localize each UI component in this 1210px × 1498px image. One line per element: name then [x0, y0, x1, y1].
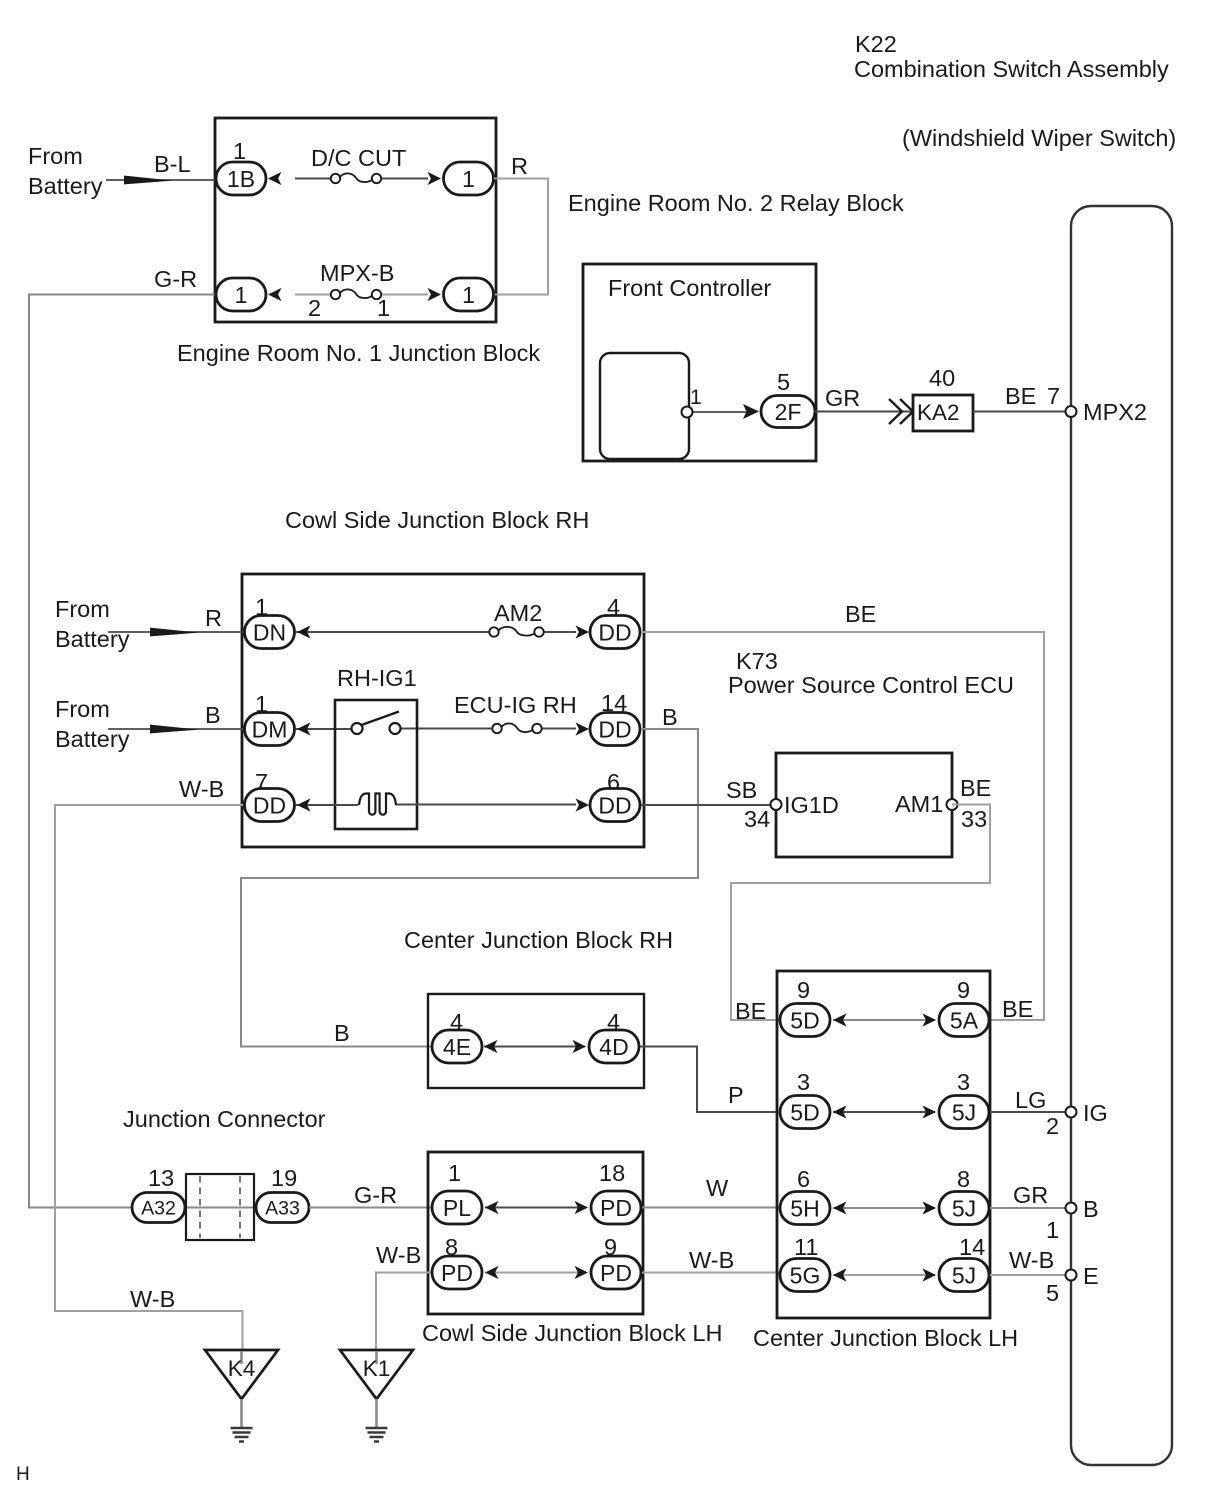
- svg-text:6: 6: [797, 1166, 810, 1192]
- arrowhead into terminal 1 (row2 right): [428, 288, 442, 301]
- wire W-B to ground K4: [55, 805, 245, 1352]
- battery arrow B-L: [124, 176, 173, 185]
- svg-text:A32: A32: [141, 1198, 176, 1220]
- label Battery (top): [28, 173, 103, 199]
- pin 8 of PD row2: [445, 1234, 458, 1260]
- wire R loop to MPX-B: [494, 179, 548, 295]
- terminal 1 (engine room row2 left): [216, 278, 266, 311]
- wire DN to AM2 fuse: [296, 631, 490, 633]
- arrowhead into PD row2 left: [485, 1266, 499, 1279]
- front controller internal unit: [600, 353, 689, 459]
- label Center Junction Block LH: [753, 1325, 1018, 1351]
- svg-text:BE: BE: [1002, 996, 1033, 1022]
- svg-text:33: 33: [961, 806, 987, 832]
- terminal PL: [432, 1191, 482, 1224]
- svg-text:1: 1: [462, 282, 475, 308]
- svg-text:BE: BE: [1005, 383, 1036, 409]
- wire G-R A33 to PL: [309, 1207, 432, 1209]
- terminal 4E: [432, 1030, 482, 1063]
- svg-text:BE: BE: [845, 601, 876, 627]
- battery arrow R: [150, 628, 199, 637]
- pin 1 of PL: [448, 1160, 461, 1186]
- arrowhead into PD row1: [575, 1201, 589, 1214]
- svg-text:4E: 4E: [443, 1034, 471, 1060]
- svg-text:R: R: [205, 605, 222, 631]
- pin 33 of AM1: [961, 806, 987, 832]
- wire label B (right of cowl RH): [662, 704, 678, 730]
- arrowhead into 5D row2: [833, 1105, 847, 1118]
- svg-text:19: 19: [271, 1165, 297, 1191]
- label AM2: [494, 600, 542, 626]
- label (Windshield Wiper Switch): [902, 125, 1176, 151]
- svg-text:E: E: [1083, 1263, 1099, 1289]
- arrowhead into DN: [297, 625, 311, 638]
- fuse D/C CUT: [331, 173, 381, 183]
- front controller box: [583, 264, 816, 461]
- svg-text:Power Source Control ECU: Power Source Control ECU: [728, 672, 1014, 698]
- wire label W-B (mid): [689, 1247, 734, 1273]
- pin 1 of MPX-B: [377, 295, 390, 321]
- svg-text:AM2: AM2: [494, 600, 542, 626]
- wire W-B 5J to E: [990, 1274, 1071, 1276]
- pin 6 of 5H: [797, 1166, 810, 1192]
- svg-text:5: 5: [777, 369, 790, 395]
- cowl side junction block LH box: [428, 1152, 643, 1314]
- svg-text:W-B: W-B: [376, 1242, 421, 1268]
- pin 1 label front controller: [690, 386, 702, 409]
- svg-text:9: 9: [797, 977, 810, 1003]
- svg-text:5J: 5J: [952, 1099, 976, 1125]
- pin AM1 of ECU: [947, 799, 958, 810]
- svg-text:B: B: [334, 1020, 350, 1046]
- label From (battery row R): [55, 596, 110, 622]
- pin 1 of 1B: [233, 138, 246, 164]
- label Center Junction Block RH: [404, 927, 673, 953]
- arrowhead into DD row3 left: [297, 798, 311, 811]
- relay RH-IG1 switch contacts: [352, 712, 401, 735]
- wire GR 5J to B: [990, 1207, 1071, 1209]
- svg-text:P: P: [728, 1082, 744, 1108]
- label Battery (row B): [55, 726, 130, 752]
- pin 2 of MPX-B: [308, 295, 321, 321]
- svg-text:G-R: G-R: [354, 1182, 397, 1208]
- svg-text:MPX2: MPX2: [1083, 399, 1147, 425]
- arrowhead into 4D: [573, 1040, 587, 1053]
- terminal DD row2: [590, 713, 640, 746]
- terminal 5H: [780, 1192, 830, 1225]
- svg-text:PL: PL: [443, 1195, 471, 1221]
- label K73: [736, 648, 778, 674]
- svg-text:1: 1: [1046, 1217, 1059, 1243]
- wire label BE (right of 5A): [1002, 996, 1033, 1022]
- svg-text:G-R: G-R: [154, 266, 197, 292]
- svg-text:Battery: Battery: [28, 173, 103, 199]
- svg-text:2: 2: [308, 295, 321, 321]
- arrowhead into 5D row1: [833, 1013, 847, 1026]
- node IG1D: [784, 792, 839, 818]
- wire label P: [728, 1082, 744, 1108]
- svg-text:14: 14: [959, 1234, 985, 1260]
- wire 4E to 4D link: [484, 1046, 585, 1048]
- wire label B-L: [154, 151, 191, 177]
- svg-text:1: 1: [690, 386, 702, 409]
- arrowhead into PD row2 right: [575, 1266, 589, 1279]
- cowl side junction block RH box: [242, 574, 644, 847]
- pin 3 of 5D row2: [797, 1069, 810, 1095]
- svg-text:Center Junction Block RH: Center Junction Block RH: [404, 927, 673, 953]
- wire label B (to 4E): [334, 1020, 350, 1046]
- wire label GR: [825, 385, 860, 411]
- label Engine Room No. 1 Junction Block: [177, 340, 540, 366]
- wire battery feed R: [108, 631, 243, 633]
- center junction block LH box: [777, 971, 990, 1318]
- pin 13 of A32: [148, 1165, 174, 1191]
- svg-text:PD: PD: [600, 1260, 632, 1286]
- wire label GR (right): [1013, 1182, 1048, 1208]
- svg-text:34: 34: [744, 806, 770, 832]
- svg-text:8: 8: [957, 1166, 970, 1192]
- arrowhead into terminal 1 (G-R row): [268, 288, 282, 301]
- terminal DD row3 left: [245, 789, 295, 822]
- wire G-R long run to junction connector: [29, 295, 216, 1208]
- wire PD to PD link row2: [485, 1272, 585, 1274]
- wire label W-B (right): [1009, 1247, 1054, 1273]
- node B: [1083, 1196, 1099, 1222]
- label From (battery row B): [55, 696, 110, 722]
- svg-text:From: From: [55, 596, 110, 622]
- svg-text:DD: DD: [598, 792, 631, 818]
- wire W-B PD to ground K1: [376, 1273, 432, 1353]
- wire 5D to 5A link: [833, 1019, 935, 1021]
- svg-text:5D: 5D: [790, 1099, 819, 1125]
- svg-text:5A: 5A: [950, 1007, 979, 1033]
- svg-text:IG: IG: [1083, 1100, 1108, 1126]
- terminal PD row2 left: [432, 1256, 482, 1289]
- arrowhead into 5A: [923, 1013, 937, 1026]
- relay RH-IG1 coil: [359, 794, 396, 815]
- engine room no.1 junction block box: [215, 118, 496, 322]
- terminal 5A: [939, 1004, 989, 1037]
- wire label BE (left of 5D): [735, 998, 766, 1024]
- label Battery (row R): [55, 626, 130, 652]
- svg-text:5: 5: [1046, 1280, 1059, 1306]
- wire P 4D to 5D: [640, 1047, 778, 1113]
- label Front Controller: [608, 275, 771, 301]
- pin IG of K22: [1066, 1107, 1077, 1118]
- label Junction Connector: [123, 1106, 326, 1132]
- wire D/C CUT fuse to terminal 1: [381, 178, 428, 180]
- svg-text:A33: A33: [265, 1198, 300, 1220]
- svg-text:SB: SB: [726, 777, 757, 803]
- pin B of K22: [1066, 1203, 1077, 1214]
- pin 1 B: [1046, 1217, 1059, 1243]
- svg-text:IG1D: IG1D: [784, 792, 839, 818]
- svg-text:B: B: [662, 704, 678, 730]
- wire label SB: [726, 777, 757, 803]
- terminal PD row2 right: [591, 1256, 641, 1289]
- svg-text:DN: DN: [253, 619, 286, 645]
- pin 5 E: [1046, 1280, 1059, 1306]
- svg-text:9: 9: [957, 977, 970, 1003]
- pin 7 MPX2: [1047, 383, 1060, 409]
- wire terminal to MPX-B fuse: [295, 294, 331, 296]
- pin 7 of DD row3: [255, 769, 268, 795]
- svg-text:W-B: W-B: [179, 776, 224, 802]
- wire label R: [511, 153, 528, 179]
- wire label G-R (junction): [354, 1182, 397, 1208]
- wire BE AM1 to 5D: [731, 805, 990, 1021]
- pin 9 of 5A: [957, 977, 970, 1003]
- svg-text:1: 1: [448, 1160, 461, 1186]
- svg-text:4D: 4D: [599, 1034, 628, 1060]
- pin 4 of DD row1: [607, 594, 620, 620]
- wire A32 to A33 link: [183, 1207, 258, 1209]
- svg-text:Junction Connector: Junction Connector: [123, 1106, 326, 1132]
- node MPX2: [1083, 399, 1147, 425]
- label Cowl Side Junction Block RH: [285, 507, 589, 533]
- arrowhead into 5J row3: [923, 1201, 937, 1214]
- svg-text:1: 1: [233, 138, 246, 164]
- terminal 5J row3: [939, 1192, 989, 1225]
- terminal A33: [256, 1193, 309, 1223]
- pin 11 of 5G: [794, 1234, 818, 1260]
- wire label B (cowl RH): [205, 702, 221, 728]
- svg-text:Cowl Side Junction Block RH: Cowl Side Junction Block RH: [285, 507, 589, 533]
- svg-text:GR: GR: [1013, 1182, 1048, 1208]
- power source control ECU box: [776, 753, 952, 857]
- fuse ECU-IG RH: [492, 723, 541, 733]
- junction connector internal dashed lines: [200, 1176, 240, 1238]
- wire label R (cowl RH): [205, 605, 222, 631]
- pin 8 of 5J row3: [957, 1166, 970, 1192]
- svg-text:PD: PD: [600, 1195, 632, 1221]
- svg-text:AM1: AM1: [895, 791, 943, 817]
- pin 1 of front controller: [682, 407, 693, 418]
- wire label W-B (cowl LH): [376, 1242, 421, 1268]
- svg-text:H: H: [16, 1464, 30, 1485]
- arrowhead into 5J row2: [923, 1105, 937, 1118]
- svg-text:1: 1: [235, 282, 248, 308]
- battery arrow B: [150, 725, 199, 734]
- arrowhead into PL: [485, 1201, 499, 1214]
- wire DM to relay switch: [296, 728, 352, 730]
- wire label BE (top run): [845, 601, 876, 627]
- arrowhead into DD row3 right: [576, 798, 590, 811]
- svg-text:3: 3: [797, 1069, 810, 1095]
- svg-text:R: R: [511, 153, 528, 179]
- terminal 5G: [780, 1259, 830, 1292]
- svg-text:D/C CUT: D/C CUT: [311, 145, 406, 171]
- wire LG 5J to IG: [990, 1111, 1071, 1113]
- svg-text:11: 11: [794, 1234, 818, 1260]
- terminal 1 (engine room row1 right): [444, 162, 494, 195]
- harness chevrons KA2: [889, 399, 913, 424]
- svg-text:40: 40: [929, 365, 955, 391]
- svg-text:K22: K22: [855, 31, 897, 57]
- wire 5H to 5J link row3: [833, 1207, 935, 1209]
- pin 4 of 4D: [607, 1009, 620, 1035]
- pin 34 of IG1D: [744, 806, 770, 832]
- wire label W: [706, 1175, 729, 1201]
- svg-text:Front Controller: Front Controller: [608, 275, 771, 301]
- wire ECU-IG fuse to DD row2: [541, 728, 576, 730]
- pin 14 of DD row2: [601, 690, 627, 716]
- label MPX-B: [320, 260, 394, 286]
- terminal 1B: [216, 162, 266, 195]
- pin IG1D of ECU: [771, 799, 782, 810]
- label From (battery top): [28, 143, 83, 169]
- pin 9 of 5D: [797, 977, 810, 1003]
- relay RH-IG1 box: [335, 700, 417, 829]
- pin 5 of 2F: [777, 369, 790, 395]
- svg-text:5J: 5J: [952, 1195, 976, 1221]
- svg-text:Battery: Battery: [55, 626, 130, 652]
- svg-text:3: 3: [957, 1069, 970, 1095]
- svg-text:DD: DD: [598, 716, 631, 742]
- label Cowl Side Junction Block LH: [422, 1320, 722, 1346]
- svg-text:B: B: [1083, 1196, 1099, 1222]
- wire label W-B (to K4): [130, 1286, 175, 1312]
- pin 19 of A33: [271, 1165, 297, 1191]
- svg-text:ECU-IG RH: ECU-IG RH: [454, 692, 577, 718]
- arrowhead into 5J row4: [923, 1268, 937, 1281]
- wire B loop DD to 4E: [241, 729, 698, 1047]
- arrowhead into 2F: [743, 404, 759, 419]
- arrowhead into 5G: [833, 1268, 847, 1281]
- wire W-B PD to 5G: [642, 1272, 780, 1274]
- svg-text:2F: 2F: [775, 399, 802, 425]
- pin 1 of DM: [255, 691, 268, 717]
- node IG: [1083, 1100, 1108, 1126]
- pin 2 IG: [1046, 1113, 1059, 1139]
- svg-text:(Windshield Wiper Switch): (Windshield Wiper Switch): [902, 125, 1176, 151]
- svg-text:W-B: W-B: [130, 1286, 175, 1312]
- svg-text:BE: BE: [960, 775, 991, 801]
- arrowhead into DM: [297, 722, 311, 735]
- junction connector box: [186, 1174, 254, 1240]
- label Power Source Control ECU: [728, 672, 1014, 698]
- pin 1 of DN: [255, 594, 268, 620]
- svg-text:KA2: KA2: [917, 400, 960, 425]
- pin 6 of DD row3: [607, 769, 620, 795]
- label K22: [855, 31, 897, 57]
- wire DD row3 to coil: [296, 804, 358, 806]
- svg-text:7: 7: [1047, 383, 1060, 409]
- wire label BE (to MPX2): [1005, 383, 1036, 409]
- svg-text:1B: 1B: [227, 166, 255, 192]
- label KA2: [917, 400, 960, 425]
- connector KA2 box: [913, 395, 973, 431]
- svg-text:Center Junction Block LH: Center Junction Block LH: [753, 1325, 1018, 1351]
- label Combination Switch Assembly: [854, 56, 1169, 82]
- wire coil to DD row3 right: [396, 804, 576, 806]
- center junction block RH box: [428, 994, 644, 1088]
- combination switch assembly K22 body: [1071, 206, 1172, 1465]
- terminal DN: [245, 616, 295, 649]
- svg-text:Engine Room No. 1 Junction Blo: Engine Room No. 1 Junction Block: [177, 340, 540, 366]
- svg-text:From: From: [28, 143, 83, 169]
- svg-text:LG: LG: [1015, 1087, 1046, 1113]
- svg-text:K73: K73: [736, 648, 778, 674]
- label ECU-IG RH: [454, 692, 577, 718]
- terminal 2F: [761, 396, 815, 428]
- pin 40 of KA2: [929, 365, 955, 391]
- terminal 5D row2: [780, 1096, 830, 1129]
- wire GR from 2F to KA2: [815, 411, 913, 413]
- wire 5D to 5J link row2: [833, 1111, 935, 1113]
- svg-text:B: B: [205, 702, 221, 728]
- svg-text:From: From: [55, 696, 110, 722]
- wire label G-R (top): [154, 266, 197, 292]
- terminal 5D row1: [780, 1004, 830, 1037]
- wire BE KA2 to MPX2: [973, 411, 1071, 413]
- svg-text:Engine Room No. 2 Relay Block: Engine Room No. 2 Relay Block: [568, 190, 904, 216]
- ground K4: [205, 1350, 278, 1442]
- pin 9 of PD row2 right: [604, 1234, 617, 1260]
- terminal 5J row2: [939, 1096, 989, 1129]
- label Engine Room No. 2 Relay Block: [568, 190, 904, 216]
- svg-text:DD: DD: [253, 792, 286, 818]
- svg-text:W-B: W-B: [1009, 1247, 1054, 1273]
- pin 3 of 5J row2: [957, 1069, 970, 1095]
- wire front controller pin1 to 2F: [689, 411, 746, 413]
- svg-text:5H: 5H: [790, 1195, 819, 1221]
- svg-text:DD: DD: [598, 619, 631, 645]
- svg-text:RH-IG1: RH-IG1: [337, 665, 417, 691]
- arrowhead into 4E: [484, 1040, 498, 1053]
- label D/C CUT: [311, 145, 406, 171]
- svg-text:18: 18: [599, 1160, 625, 1186]
- svg-text:BE: BE: [735, 998, 766, 1024]
- arrowhead into 5H: [833, 1201, 847, 1214]
- terminal DM: [245, 713, 295, 746]
- arrowhead into DD row1: [576, 625, 590, 638]
- svg-text:W-B: W-B: [689, 1247, 734, 1273]
- terminal A32: [132, 1193, 185, 1223]
- pin E of K22: [1066, 1270, 1077, 1281]
- arrowhead into 1B: [268, 172, 282, 185]
- page marker H: [16, 1464, 30, 1485]
- pin 14 of 5J row4: [959, 1234, 985, 1260]
- svg-text:B-L: B-L: [154, 151, 191, 177]
- terminal PD row1 right: [591, 1191, 641, 1224]
- wire W PD to 5H: [642, 1207, 780, 1209]
- arrowhead into terminal 1 (R side): [428, 172, 442, 185]
- svg-text:Battery: Battery: [55, 726, 130, 752]
- wire MPX-B fuse to right terminal: [381, 294, 428, 296]
- svg-text:2: 2: [1046, 1113, 1059, 1139]
- pin 4 of 4E: [450, 1009, 463, 1035]
- wire label LG: [1015, 1087, 1046, 1113]
- svg-text:Combination Switch Assembly: Combination Switch Assembly: [854, 56, 1169, 82]
- terminal 1 (engine room row2 right): [444, 278, 494, 311]
- svg-text:DM: DM: [252, 716, 288, 742]
- ground K1: [340, 1350, 413, 1442]
- wire 1B to D/C CUT fuse: [295, 178, 331, 180]
- terminal 5J row4: [939, 1259, 989, 1292]
- fuse MPX-B: [331, 289, 381, 299]
- terminal DD row3 right: [590, 789, 640, 822]
- svg-text:MPX-B: MPX-B: [320, 260, 394, 286]
- svg-text:W: W: [706, 1175, 729, 1201]
- svg-text:GR: GR: [825, 385, 860, 411]
- wire label BE (AM1): [960, 775, 991, 801]
- wire PL to PD link: [485, 1207, 585, 1209]
- svg-text:K4: K4: [228, 1356, 256, 1381]
- terminal 4D: [589, 1030, 639, 1063]
- wire SB DD to IG1D: [641, 804, 776, 806]
- svg-text:K1: K1: [363, 1356, 391, 1381]
